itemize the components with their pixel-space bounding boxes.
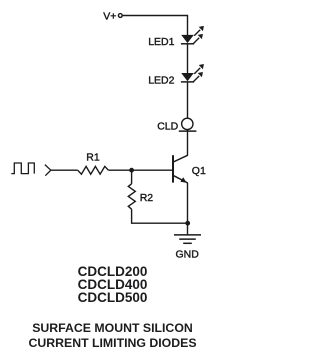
svg-text:R2: R2: [140, 192, 154, 204]
input arrow: [45, 165, 51, 176]
svg-text:LED1: LED1: [148, 36, 174, 48]
resistor R2: [128, 184, 135, 209]
wire LED1 to LED2: [187, 44, 189, 74]
title SURFACE MOUNT SILICON CURRENT LIMITING DIODES: [5, 321, 220, 353]
svg-text:R1: R1: [86, 151, 100, 163]
wire R2 to emitter node: [132, 209, 188, 223]
wire LED2 to CLD: [187, 82, 189, 119]
transistor Q1: [173, 155, 188, 183]
wire R1 to base node: [108, 169, 172, 171]
ground: [174, 223, 201, 243]
wire node to R2: [131, 170, 133, 184]
part number CDCLD200: [5, 265, 220, 304]
diode CLD (current limiting diode): [179, 118, 197, 131]
wire V+ to top corner: [122, 16, 187, 36]
svg-text:CLD: CLD: [157, 121, 178, 133]
svg-text:V+: V+: [103, 10, 116, 22]
wire CLD to Q1 collector: [187, 130, 189, 156]
svg-text:LED2: LED2: [148, 74, 174, 86]
wire input to R1: [51, 169, 78, 171]
resistor R1: [78, 166, 109, 174]
LED D2: [181, 64, 204, 82]
svg-text:Q1: Q1: [192, 165, 206, 177]
junction node base: [129, 168, 134, 173]
input square wave symbol: [11, 163, 34, 174]
svg-text:GND: GND: [176, 248, 200, 260]
terminal V+: [118, 14, 122, 18]
LED D1: [181, 26, 204, 44]
wire Q1 emitter down: [187, 183, 189, 223]
junction node emitter: [185, 221, 190, 226]
